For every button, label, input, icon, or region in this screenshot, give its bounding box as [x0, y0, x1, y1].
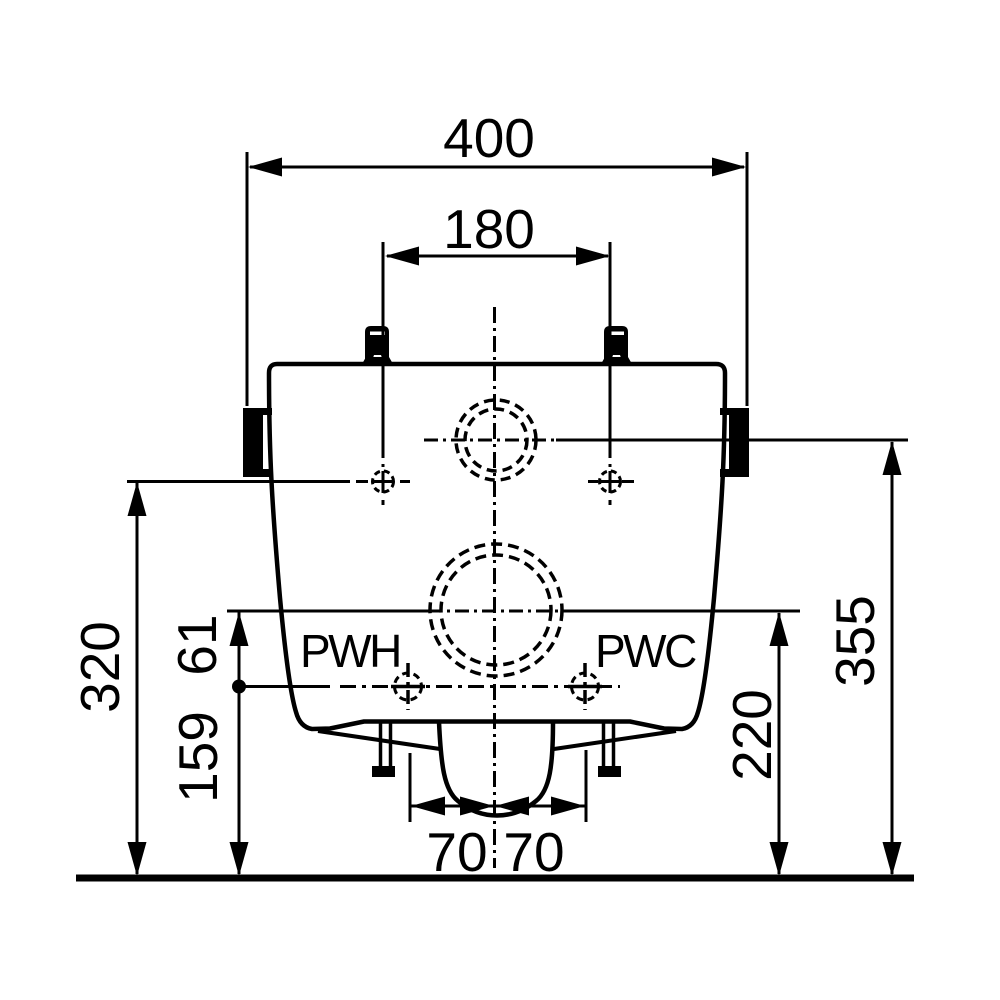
- dimension 355: [824, 441, 902, 876]
- upper circle inner: [465, 409, 527, 471]
- lower circle outer: [430, 544, 562, 676]
- port line y=686.5: [239, 685, 330, 688]
- tank bottom left wing lower edge: [318, 731, 440, 749]
- svg-text:320: 320: [69, 621, 131, 713]
- svg-text:220: 220: [721, 689, 783, 781]
- reference line y=611 left solid: [227, 610, 428, 613]
- svg-text:355: 355: [824, 595, 886, 687]
- bolt hole crosshair line y=481.5: [127, 480, 350, 483]
- svg-text:180: 180: [443, 198, 535, 260]
- PWC port crosshair: [568, 663, 602, 710]
- reference line y=611 right solid: [564, 610, 800, 613]
- svg-text:PWH: PWH: [300, 625, 400, 677]
- svg-text:70: 70: [503, 821, 564, 883]
- upper circle outer: [456, 400, 536, 480]
- left top bolt: [362, 326, 393, 364]
- dimension 70 70: [410, 750, 586, 883]
- right leg: [604, 723, 614, 766]
- svg-text:70: 70: [426, 821, 487, 883]
- PWH port crosshair: [391, 663, 425, 710]
- dimension 220: [721, 612, 789, 876]
- left mounting tab: [243, 408, 272, 477]
- flush outlet funnel: [439, 722, 553, 816]
- svg-text:PWC: PWC: [595, 625, 696, 677]
- dimension 400: [247, 107, 747, 406]
- lower circle inner: [441, 555, 551, 665]
- tank bottom right wing lower edge: [554, 731, 676, 749]
- right foot: [598, 766, 621, 777]
- dimension 61 with dot: [166, 612, 249, 694]
- right top bolt: [601, 326, 632, 364]
- left leg: [381, 723, 391, 766]
- left bolt hole crosshair: [372, 242, 394, 505]
- dimension 180: [385, 198, 610, 266]
- tank body outline: [269, 364, 725, 729]
- dimension 159: [167, 686, 249, 876]
- svg-text:61: 61: [166, 614, 228, 675]
- vertical centerline: [493, 307, 496, 868]
- upper circle centerline horizontal: [424, 439, 556, 442]
- svg-text:400: 400: [443, 107, 535, 169]
- left foot: [372, 766, 395, 777]
- extension line to 355 dim: [556, 439, 908, 442]
- dimension 320: [69, 482, 147, 877]
- reference line y=611 through circle dash-dot: [428, 610, 564, 613]
- right bolt hole crosshair: [599, 242, 621, 505]
- right mounting tab: [720, 408, 749, 477]
- svg-text:159: 159: [167, 711, 229, 803]
- ground line: [76, 875, 914, 882]
